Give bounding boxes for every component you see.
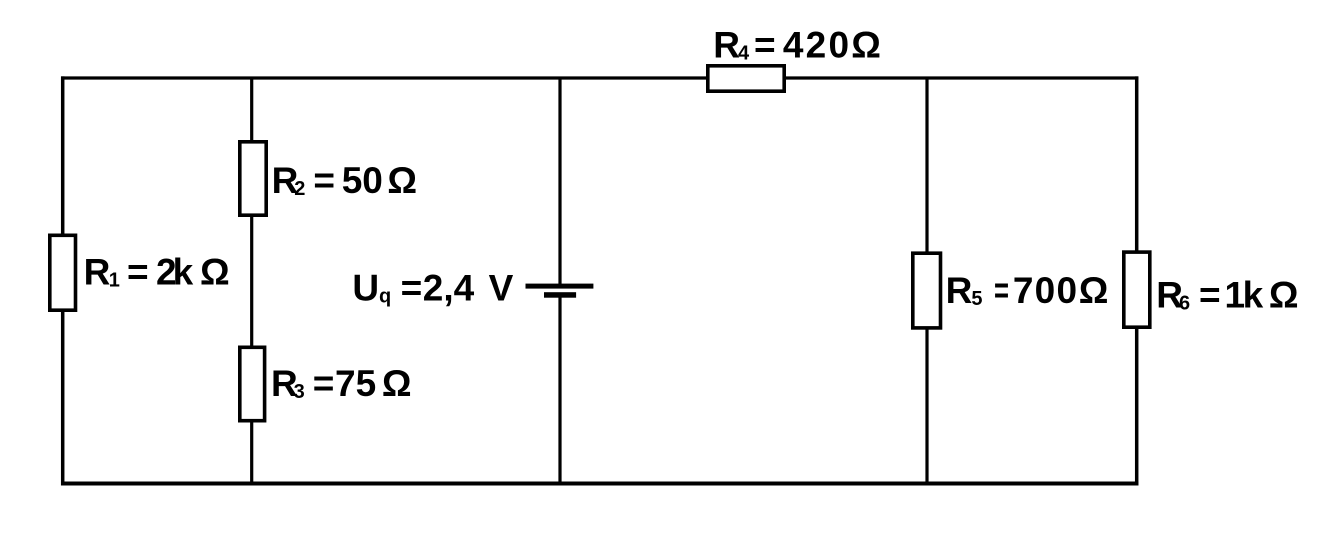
wire branch R5 xyxy=(925,78,928,484)
top wire xyxy=(61,76,1138,79)
resistor R5 xyxy=(913,253,941,328)
bottom wire xyxy=(61,482,1138,486)
svg-text:R 2 = 50 Ω: R 2 = 50 Ω xyxy=(272,160,417,201)
svg-text:R 5 = 700 Ω: R 5 = 700 Ω xyxy=(946,270,1109,311)
wire battery bottom lead xyxy=(558,295,561,484)
wire branch R2/R3 xyxy=(250,78,253,484)
resistor R3 xyxy=(240,347,265,420)
svg-text:R 1 = 2k Ω: R 1 = 2k Ω xyxy=(84,251,230,292)
svg-text:R 6 = 1k Ω: R 6 = 1k Ω xyxy=(1156,274,1298,315)
left wire xyxy=(61,76,65,485)
resistor R1 xyxy=(50,235,76,310)
resistor R6 xyxy=(1124,252,1150,327)
right wire xyxy=(1135,76,1139,485)
svg-text:R 4 = 420 Ω: R 4 = 420 Ω xyxy=(713,25,881,66)
resistor R2 xyxy=(240,142,266,215)
svg-text:U q = 2,4 V: U q = 2,4 V xyxy=(352,267,513,308)
wire battery top lead xyxy=(558,78,561,286)
battery U1 long plate xyxy=(526,284,594,289)
resistor R4 xyxy=(708,66,784,91)
svg-text:R 3 = 75 Ω: R 3 = 75 Ω xyxy=(271,363,412,404)
battery U1 short plate xyxy=(544,292,576,298)
